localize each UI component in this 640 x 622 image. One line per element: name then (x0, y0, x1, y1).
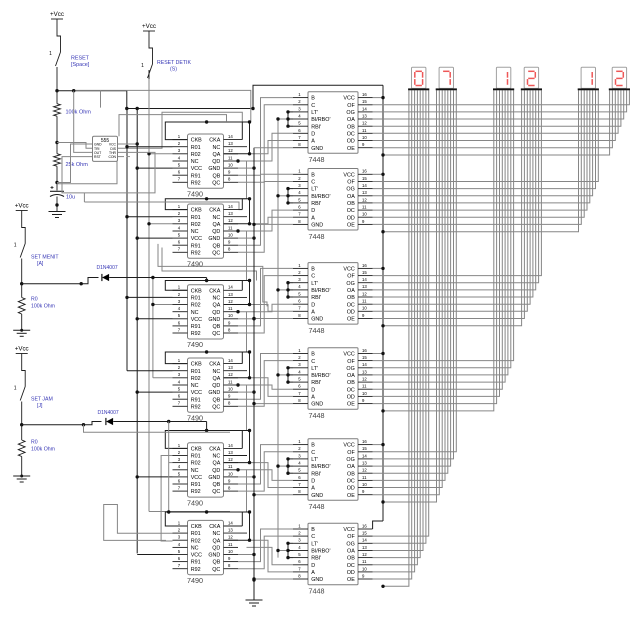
svg-text:OG: OG (346, 281, 354, 287)
wire QB U6 to B U12 (238, 529, 293, 562)
svg-text:100k Ohm: 100k Ohm (31, 447, 55, 453)
svg-text:NC: NC (213, 145, 221, 151)
svg-text:7448: 7448 (309, 502, 325, 511)
svg-text:NC: NC (213, 531, 221, 537)
node SET MENIT junction (20, 282, 23, 285)
svg-text:12: 12 (228, 148, 233, 153)
wire QD U1 to D U7 (247, 133, 294, 161)
svg-text:OB: OB (347, 471, 355, 477)
wire segment output OF U10 to display 3 (373, 90, 514, 360)
svg-text:OD: OD (347, 215, 355, 221)
svg-text:CON: CON (108, 155, 116, 159)
svg-text:13: 13 (228, 365, 233, 370)
svg-text:SET JAM: SET JAM (31, 397, 53, 403)
svg-text:13: 13 (228, 528, 233, 533)
svg-text:13: 13 (362, 369, 367, 374)
svg-text:QC: QC (212, 404, 220, 410)
svg-text:QB: QB (213, 397, 221, 403)
svg-text:QC: QC (212, 250, 220, 256)
wire segment output OA U12 to display 1 (373, 90, 424, 550)
svg-text:OF: OF (347, 450, 355, 456)
svg-text:GND: GND (311, 317, 323, 323)
wire LT/BI/RBI tie U7 (287, 112, 289, 126)
svg-text:11: 11 (228, 542, 233, 547)
svg-text:C: C (311, 359, 315, 365)
wire segment output OF U12 to display 1 (373, 90, 429, 536)
wire VCC pin U4 from Vcc rail (137, 391, 172, 393)
wire GND pin U1 to ground rail (238, 167, 254, 169)
wire Vcc horizontal feed y108.5 (127, 108, 253, 110)
svg-text:16: 16 (362, 263, 367, 268)
wire 555 control loop long run (84, 202, 242, 210)
svg-text:15: 15 (362, 446, 367, 451)
svg-text:A: A (311, 570, 315, 576)
svg-text:R01: R01 (191, 215, 201, 221)
wire QA-CKB feedback loop counter U2 (165, 199, 249, 224)
wire segment output OD U7 to display 6 (373, 90, 616, 140)
wire VCC pin U3 from Vcc rail (137, 318, 172, 320)
svg-text:11: 11 (228, 225, 233, 230)
svg-text:QB: QB (213, 324, 221, 330)
svg-text:OE: OE (347, 577, 355, 583)
svg-text:A: A (311, 309, 315, 315)
svg-text:BI/RBO': BI/RBO' (311, 117, 330, 123)
svg-text:GND: GND (208, 317, 220, 323)
svg-text:1: 1 (141, 63, 144, 69)
wire segment output OG U10 to display 3 (373, 90, 511, 368)
svg-text:RBI': RBI' (311, 471, 321, 477)
svg-text:11: 11 (228, 155, 233, 160)
wire 555 THR loop (62, 152, 155, 193)
wire segment output OD U10 to display 3 (373, 90, 500, 396)
wire cap node to 555 bottom (57, 161, 117, 183)
svg-text:QB: QB (213, 173, 221, 179)
svg-text:CKB: CKB (191, 138, 202, 144)
node junction on Vcc feed (125, 107, 128, 110)
svg-text:B: B (311, 352, 315, 358)
svg-text:VCC: VCC (343, 352, 354, 358)
wire QA U6 to A U12 (250, 540, 294, 572)
svg-text:RBI': RBI' (311, 295, 321, 301)
svg-text:CKB: CKB (191, 524, 202, 530)
svg-text:10: 10 (228, 313, 233, 318)
wire QD U4 to D U10 (247, 385, 294, 389)
svg-text:14: 14 (228, 134, 233, 139)
svg-text:11: 11 (362, 475, 367, 480)
svg-text:+Vcc: +Vcc (15, 345, 29, 352)
counter U1 7490 (173, 134, 248, 199)
wire VCC pin U6 from Vcc rail (137, 554, 172, 556)
svg-text:R02: R02 (191, 376, 201, 382)
svg-text:CKB: CKB (191, 447, 202, 453)
svg-text:GND: GND (208, 553, 220, 559)
svg-text:QA: QA (213, 538, 221, 544)
wire carry QD U5 to U6 (207, 470, 247, 512)
wire QA U3 to A U9 (250, 305, 294, 312)
svg-text:13: 13 (228, 292, 233, 297)
wire Vcc riser to 7448 rail (253, 85, 383, 108)
svg-text:7448: 7448 (309, 587, 325, 596)
svg-text:OF: OF (347, 359, 355, 365)
wire LT/BI/RBI tie U12 (287, 543, 289, 557)
svg-text:QD: QD (212, 546, 220, 552)
svg-text:15: 15 (362, 176, 367, 181)
svg-text:B: B (311, 96, 315, 102)
svg-text:10: 10 (362, 482, 367, 487)
wire SET JAM to diode (22, 422, 102, 425)
seven-segment display DS6 digit 2 (609, 67, 630, 90)
decoder U11 7448 (293, 439, 373, 511)
svg-text:12: 12 (362, 377, 367, 382)
wire display 6 common to Vcc rail (383, 90, 610, 155)
wire segment output OB U10 to display 3 (373, 90, 506, 382)
svg-text:16: 16 (362, 92, 367, 97)
svg-text:OB: OB (347, 295, 355, 301)
wire segment output OA U7 to display 6 (373, 90, 624, 119)
wire hour set branch down to U6 clock loop (168, 422, 170, 513)
wire VCC pin U2 from Vcc rail (137, 237, 172, 239)
svg-text:GND: GND (208, 236, 220, 242)
wire VCC pin U8 to rail (373, 173, 384, 175)
svg-text:12: 12 (362, 552, 367, 557)
wire GND pin U9 to ground rail (254, 318, 293, 320)
wire segment output OE U12 to display 1 (373, 90, 412, 579)
counter U3 7490 (173, 285, 248, 350)
wire display 5 common to Vcc rail (383, 90, 579, 231)
wire LT/BI/RBI tie U10 (287, 368, 289, 382)
svg-text:+Vcc: +Vcc (142, 23, 156, 30)
svg-text:12: 12 (228, 457, 233, 462)
svg-text:OD: OD (347, 395, 355, 401)
wire QA U1 to A U7 (250, 141, 294, 154)
svg-text:25k Ohm: 25k Ohm (66, 162, 89, 168)
wire R02 U1 reset line (149, 153, 173, 155)
wire Vcc rail jog to U12 (373, 521, 383, 529)
svg-text:NC: NC (191, 383, 199, 389)
svg-text:CKA: CKA (209, 288, 220, 294)
wire SET MENIT to diode (22, 278, 99, 284)
wire master reset rail (126, 109, 128, 371)
svg-text:13: 13 (362, 114, 367, 119)
wire CKA clock entry U2 (241, 199, 243, 210)
wire 7490 Vcc rail (136, 109, 138, 554)
wire QA U2 to A U8 (250, 217, 294, 224)
svg-text:12: 12 (362, 468, 367, 473)
seven-segment display DS1 digit 0 (408, 67, 429, 90)
svg-text:VCC: VCC (343, 443, 354, 449)
svg-text:1: 1 (49, 51, 52, 57)
svg-text:A: A (311, 215, 315, 221)
svg-text:R91: R91 (191, 560, 201, 566)
wire GND pin U10 to ground rail (254, 403, 293, 405)
svg-text:[J]: [J] (37, 403, 43, 409)
svg-text:14: 14 (362, 538, 367, 543)
wire GND pin U7 to ground rail (254, 147, 293, 149)
wire QC U4 to C U10 (238, 361, 293, 407)
svg-text:VCC: VCC (191, 553, 202, 559)
svg-text:OC: OC (347, 479, 355, 485)
svg-text:VCC: VCC (343, 267, 354, 273)
svg-text:B: B (311, 527, 315, 533)
wire U5 R01 wrap to U6 (161, 456, 172, 542)
wire GND pin U8 to ground rail (254, 223, 293, 225)
svg-text:OB: OB (347, 124, 355, 130)
svg-text:16: 16 (362, 348, 367, 353)
svg-text:VCC: VCC (343, 96, 354, 102)
svg-text:11: 11 (362, 299, 367, 304)
wire QC U2 to C U8 (238, 182, 293, 253)
svg-text:LT': LT' (311, 110, 318, 116)
wire LT/BI/RBI tie U8 (287, 189, 289, 203)
wire GND pin U4 to ground rail (238, 391, 254, 393)
svg-text:QA: QA (213, 461, 221, 467)
svg-text:7490: 7490 (187, 576, 203, 585)
wire QC U1 to C U7 (238, 105, 293, 183)
wire display 1 common to Vcc rail (383, 90, 409, 586)
wire 555 VCC to rail (118, 143, 138, 145)
svg-text:OD: OD (347, 309, 355, 315)
wire QA-CKB feedback loop counter U4 (165, 352, 249, 378)
svg-text:D: D (311, 131, 315, 137)
svg-text:12: 12 (228, 535, 233, 540)
svg-text:R02: R02 (191, 303, 201, 309)
wire carry QD U1 to U2 (207, 161, 247, 199)
svg-text:12: 12 (362, 197, 367, 202)
wire segment output OG U8 to display 5 (373, 90, 596, 188)
wire segment output OC U12 to display 1 (373, 90, 418, 565)
svg-text:7448: 7448 (309, 411, 325, 420)
svg-text:GND: GND (208, 166, 220, 172)
svg-text:C: C (311, 180, 315, 186)
svg-text:NC: NC (213, 369, 221, 375)
svg-text:OC: OC (347, 131, 355, 137)
svg-text:OA: OA (347, 549, 355, 555)
svg-text:OG: OG (346, 366, 354, 372)
wire GND pin U5 to ground rail (238, 476, 254, 478)
wire CKA clock entry U5 (241, 431, 243, 449)
svg-text:OC: OC (347, 208, 355, 214)
wire segment output OC U8 to display 5 (373, 90, 588, 210)
wire RESET DETIK rail (148, 70, 150, 512)
wire segment output OE U8 to display 5 (373, 90, 582, 224)
svg-text:7448: 7448 (309, 155, 325, 164)
wire LT/BI/RBI tie U9 (287, 283, 289, 297)
svg-text:[A]: [A] (37, 261, 44, 267)
svg-text:OG: OG (346, 110, 354, 116)
svg-text:QA: QA (213, 152, 221, 158)
wire SET JAM lower branch run (84, 425, 231, 433)
svg-text:VCC: VCC (191, 236, 202, 242)
wire 7448 Vcc rail vertical (382, 85, 384, 521)
svg-text:R01: R01 (191, 296, 201, 302)
svg-text:R0: R0 (31, 297, 38, 303)
wire QD U5 to D U11 (247, 470, 294, 481)
wire QB U5 to B U11 (238, 445, 293, 484)
wire QC U6 to C U12 (238, 536, 293, 569)
svg-text:OB: OB (347, 380, 355, 386)
wire 555 TRI from R junction (57, 143, 93, 149)
svg-text:OA: OA (347, 117, 355, 123)
svg-text:7490: 7490 (187, 340, 203, 349)
wire VCC pin U9 to rail (373, 267, 384, 269)
wire R01 U4 reset line (127, 370, 173, 372)
wire segment output OC U9 to display 4 (373, 90, 531, 304)
wire QA-CKB feedback loop counter U6 (165, 512, 249, 540)
svg-text:R92: R92 (191, 180, 201, 186)
wire segment output OE U11 to display 2 (373, 90, 440, 494)
svg-text:OF: OF (347, 274, 355, 280)
wire segment output OF U11 to display 2 (373, 90, 457, 452)
wire QA U4 to A U10 (250, 378, 294, 397)
wire segment output OA U11 to display 2 (373, 90, 451, 466)
wire segment output OB U12 to display 1 (373, 90, 421, 557)
svg-text:1: 1 (14, 386, 17, 392)
svg-text:14: 14 (362, 453, 367, 458)
wire QA U5 to A U11 (250, 463, 294, 488)
svg-text:CKB: CKB (191, 288, 202, 294)
decoder U8 7448 (293, 169, 373, 241)
seven-segment display DS3 digit 1 (493, 67, 514, 90)
wire 555 CON stub (118, 156, 125, 158)
wire segment output OE U10 to display 3 (373, 90, 497, 403)
svg-text:GND: GND (311, 402, 323, 408)
wire U2 wrap run to decoder 3 area (158, 244, 267, 307)
svg-text:OD: OD (347, 570, 355, 576)
wire 7448 ground rail vertical (253, 148, 255, 600)
svg-text:14: 14 (362, 183, 367, 188)
wire GND pin U6 to ground rail (238, 554, 254, 556)
svg-text:10: 10 (362, 135, 367, 140)
svg-text:RESET DETIK: RESET DETIK (157, 60, 191, 66)
svg-text:RBI': RBI' (311, 556, 321, 562)
timer U555 (93, 136, 118, 161)
svg-text:NC: NC (191, 229, 199, 235)
wire segment output OD U9 to display 4 (373, 90, 528, 311)
wire GND pin U2 to ground rail (238, 237, 254, 239)
svg-text:14: 14 (228, 520, 233, 525)
svg-text:NC: NC (213, 454, 221, 460)
wire carry QD U3 to U4 (207, 312, 247, 352)
svg-text:OE: OE (347, 402, 355, 408)
svg-text:R0: R0 (31, 440, 38, 446)
wire carry QD U2 to U3 (207, 231, 247, 281)
svg-text:R02: R02 (191, 461, 201, 467)
svg-text:CKA: CKA (209, 362, 220, 368)
svg-text:QB: QB (213, 560, 221, 566)
svg-text:OE: OE (347, 317, 355, 323)
counter U4 7490 (173, 358, 248, 423)
svg-text:R91: R91 (191, 482, 201, 488)
svg-text:10: 10 (362, 391, 367, 396)
svg-text:10: 10 (228, 549, 233, 554)
svg-text:LT': LT' (311, 187, 318, 193)
svg-text:RBI': RBI' (311, 124, 321, 130)
wire QC U3 to C U9 (238, 276, 293, 333)
svg-text:11: 11 (362, 559, 367, 564)
svg-text:OG: OG (346, 541, 354, 547)
svg-text:A: A (311, 139, 315, 145)
wire segment output OG U11 to display 2 (373, 90, 454, 459)
svg-text:OE: OE (347, 146, 355, 152)
svg-text:12: 12 (228, 218, 233, 223)
svg-text:14: 14 (228, 204, 233, 209)
svg-text:QA: QA (213, 222, 221, 228)
wire segment output OD U8 to display 5 (373, 90, 585, 217)
svg-text:GND: GND (311, 146, 323, 152)
svg-text:OB: OB (347, 201, 355, 207)
svg-text:BI/RBO': BI/RBO' (311, 194, 330, 200)
svg-text:R92: R92 (191, 567, 201, 573)
svg-text:SET MENIT: SET MENIT (31, 255, 59, 261)
capacitor C1 10u (56, 183, 58, 191)
wire segment output OF U7 to display 6 (373, 90, 630, 105)
wire segment output OE U7 to display 6 (373, 90, 613, 147)
svg-text:QA: QA (213, 303, 221, 309)
svg-text:10: 10 (228, 163, 233, 168)
svg-text:14: 14 (362, 106, 367, 111)
svg-text:7490: 7490 (187, 190, 203, 199)
svg-text:13: 13 (362, 460, 367, 465)
wire U2 wrap run lower (162, 248, 257, 281)
svg-text:NC: NC (191, 546, 199, 552)
svg-text:VCC: VCC (191, 317, 202, 323)
svg-text:CKA: CKA (209, 447, 220, 453)
svg-text:12: 12 (362, 291, 367, 296)
svg-text:11: 11 (228, 379, 233, 384)
svg-text:C: C (311, 103, 315, 109)
svg-text:11: 11 (228, 306, 233, 311)
svg-text:QB: QB (213, 482, 221, 488)
wire QD U2 to D U8 (247, 210, 294, 231)
svg-text:GND: GND (208, 475, 220, 481)
wire RESET DETIK rail bottom jog (149, 511, 230, 513)
wire VCC pin U5 from Vcc rail (137, 476, 172, 478)
svg-text:D: D (311, 208, 315, 214)
svg-text:R91: R91 (191, 397, 201, 403)
svg-text:NC: NC (191, 310, 199, 316)
wire Vcc from RESET switch to logic (57, 91, 127, 109)
svg-text:R02: R02 (191, 152, 201, 158)
svg-text:VCC: VCC (191, 390, 202, 396)
wire RBI tie rail (277, 119, 279, 558)
seven-segment display DS4 digit 2 (521, 67, 542, 90)
svg-text:NC: NC (213, 296, 221, 302)
node SET JAM junction (20, 423, 23, 426)
svg-text:LT': LT' (311, 281, 318, 287)
svg-text:15: 15 (362, 270, 367, 275)
wire R02 U4 reset line (153, 377, 173, 379)
wire U6 R01 R02 wrap (104, 505, 173, 541)
wire segment output OB U11 to display 2 (373, 90, 448, 473)
svg-text:11: 11 (228, 464, 233, 469)
svg-text:VCC: VCC (343, 172, 354, 178)
svg-text:D: D (311, 387, 315, 393)
decoder U12 7448 (293, 523, 373, 595)
svg-text:OD: OD (347, 139, 355, 145)
svg-text:CKA: CKA (209, 138, 220, 144)
wire VCC pin U7 to rail (373, 97, 384, 99)
wire QA-CKB feedback loop counter U5 (165, 431, 249, 463)
wire diode D1 to minutes counter clock (109, 277, 206, 279)
wire R01 U3 reset line (127, 296, 173, 298)
svg-text:R91: R91 (191, 243, 201, 249)
svg-text:R91: R91 (191, 173, 201, 179)
svg-text:13: 13 (228, 450, 233, 455)
ground bottom center (253, 580, 255, 600)
wire segment output OB U7 to display 6 (373, 90, 621, 126)
wire VCC pin U11 to rail (373, 444, 384, 446)
svg-text:A: A (311, 395, 315, 401)
